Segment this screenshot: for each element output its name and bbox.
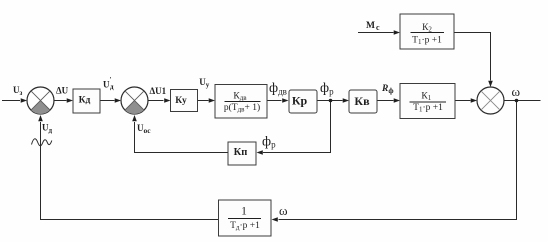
svg-text:ω: ω — [512, 84, 521, 99]
svg-text:ΔU: ΔU — [56, 86, 69, 96]
svg-text:1: 1 — [241, 206, 247, 218]
svg-text:ΔU1: ΔU1 — [150, 86, 167, 96]
svg-text:Кр: Кр — [292, 94, 308, 108]
svg-text:Ку: Ку — [175, 96, 187, 106]
svg-text:Кд: Кд — [79, 95, 91, 105]
svg-text:Тд·р +1: Тд·р +1 — [230, 221, 260, 232]
svg-text:Кв: Кв — [354, 94, 370, 108]
svg-text:Rф: Rф — [381, 84, 394, 95]
svg-text:ω: ω — [279, 203, 288, 218]
svg-text:Мс: Мс — [366, 21, 380, 32]
svg-text:Кп: Кп — [234, 147, 248, 158]
svg-text:Т1·р +1: Т1·р +1 — [412, 36, 442, 47]
svg-text:Т1·р +1: Т1·р +1 — [413, 103, 443, 114]
